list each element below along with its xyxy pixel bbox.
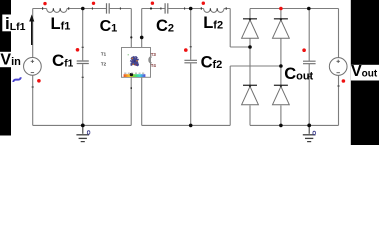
diode D3 bottom-left [242, 85, 259, 105]
diode D1 top-left [242, 18, 259, 38]
inductor Lf2 [201, 7, 226, 12]
transformer winding scribble [128, 54, 139, 66]
label box i_Lf1 [2, 15, 33, 32]
capacitor C2 [161, 3, 185, 13]
svg-text:T1: T1 [101, 52, 107, 57]
capacitor Cf1 [77, 47, 89, 77]
junction node Cf1 top [81, 7, 85, 11]
junction node Cout bottom [307, 124, 311, 128]
right black border band [351, 0, 379, 145]
tick transformer T2 lead [131, 87, 133, 89]
junction node Cf2 top [189, 7, 193, 11]
wire Vout branch vertical [338, 9, 340, 126]
left black border band [0, 0, 11, 136]
junction node bridge bottom [279, 124, 283, 128]
pin label T2 [101, 61, 107, 66]
capacitor Cout [303, 61, 316, 76]
wire transformer T4 bottom lead [141, 77, 143, 125]
wire top rail middle (C2 section) [142, 8, 231, 10]
wire Cf1 branch vertical [82, 9, 84, 126]
value label L_f1 [51, 15, 71, 33]
net label V_in [0, 52, 21, 69]
probe dot C2 [151, 2, 154, 5]
junction node bridge input A [248, 45, 252, 49]
value label L_f2 [203, 14, 223, 32]
svg-text:T4: T4 [151, 63, 157, 68]
probe dot C1 [92, 2, 95, 5]
value label C_f2 [201, 53, 223, 71]
junction node transformer T1 lead [130, 36, 132, 38]
wire bottom rail left [33, 124, 132, 126]
wire transformer T1 top lead [130, 9, 132, 48]
source Vout circle [329, 58, 347, 86]
ground right [303, 125, 316, 141]
net label V_out [351, 63, 378, 80]
probe dot Lf1 [43, 2, 46, 5]
wire bridge node B riser [229, 66, 231, 125]
wire top rail left (Vin corner to C1) [33, 8, 132, 10]
probe dot rectifier node [279, 7, 283, 11]
probe dot Cout [302, 48, 306, 52]
pin label T1 [101, 52, 107, 57]
wire transformer T3 top lead [141, 9, 143, 48]
wire bottom rail right [250, 124, 339, 126]
probe dot Cf2 [184, 48, 188, 52]
probe dot Vout [342, 79, 346, 83]
ground left [76, 125, 89, 141]
probe dot Vin [37, 79, 41, 83]
transformer right port bracket [149, 57, 151, 63]
wire bridge node A horizontal [230, 46, 250, 48]
value label C_f1 [52, 51, 74, 70]
value label C_2 [156, 17, 174, 35]
junction node transformer T3 lead [140, 36, 144, 40]
junction node after C2 corner [150, 7, 152, 9]
svg-text:T3: T3 [151, 52, 157, 57]
wire bridge left leg [249, 9, 251, 126]
transformer colour legend bar [124, 73, 146, 77]
probe dot Lf2 [202, 2, 205, 5]
diode D4 bottom-right [273, 85, 290, 105]
svg-text:T2: T2 [101, 61, 107, 66]
wire Cout branch vertical [308, 9, 310, 126]
wire Cf2 branch vertical [190, 9, 192, 126]
current arrow i_Lf1 [29, 14, 34, 45]
pin label T4 [151, 63, 157, 68]
probe dot Cf1 [76, 48, 80, 52]
label box V_in [0, 52, 28, 67]
wire Lf2 to bridge node A down [229, 9, 231, 48]
wire transformer T2 bottom lead [130, 77, 132, 125]
wire bridge right leg [280, 9, 282, 126]
diode D2 top-right [273, 18, 290, 38]
inductor Lf1 [43, 7, 69, 12]
capacitor Cf2 [184, 47, 197, 63]
net label i_Lf1 [5, 14, 26, 33]
junction node ground left [81, 124, 85, 128]
label box V_out [351, 65, 379, 81]
junction node bridge input B [279, 64, 283, 68]
wire top rail right (rectifier output to Vout) [250, 8, 339, 10]
wire bottom rail middle [142, 124, 231, 126]
source Vin circle [24, 58, 42, 87]
value label C_1 [100, 18, 118, 35]
wire bridge node B horizontal [230, 65, 281, 67]
value label C_out [284, 65, 313, 83]
transformer U1 box [122, 48, 151, 78]
wire Vin branch vertical [32, 9, 34, 126]
pin label T3 [151, 52, 157, 57]
junction node Cf2 bottom [189, 124, 193, 128]
junction node Cout top [307, 7, 311, 11]
sine icon Vin [13, 77, 20, 82]
capacitor C1 [92, 3, 120, 13]
